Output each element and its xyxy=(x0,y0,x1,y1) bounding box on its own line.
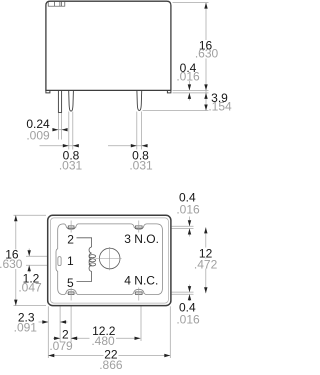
svg-text:5: 5 xyxy=(67,276,74,290)
svg-text:.009: .009 xyxy=(26,129,50,143)
svg-text:.866: .866 xyxy=(99,358,123,372)
svg-text:1: 1 xyxy=(67,254,74,268)
svg-text:4 N.C.: 4 N.C. xyxy=(124,273,158,287)
svg-text:.630: .630 xyxy=(0,257,23,271)
svg-text:3 N.O.: 3 N.O. xyxy=(124,232,159,246)
svg-text:.031: .031 xyxy=(129,159,153,173)
svg-text:.047: .047 xyxy=(18,281,42,295)
svg-text:.016: .016 xyxy=(176,70,200,84)
svg-text:2: 2 xyxy=(67,232,74,246)
svg-text:.480: .480 xyxy=(91,334,115,348)
svg-text:.154: .154 xyxy=(208,100,232,114)
svg-text:.031: .031 xyxy=(59,159,83,173)
svg-text:.079: .079 xyxy=(49,339,73,353)
svg-text:.472: .472 xyxy=(194,258,218,272)
svg-text:.016: .016 xyxy=(176,313,200,327)
svg-text:.091: .091 xyxy=(14,321,38,335)
svg-text:.630: .630 xyxy=(195,47,219,61)
svg-text:.016: .016 xyxy=(176,203,200,217)
